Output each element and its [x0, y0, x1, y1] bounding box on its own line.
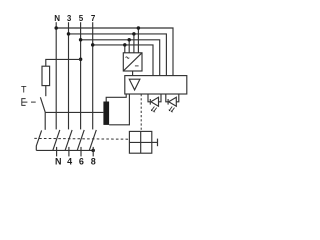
wire lower stub N: [56, 147, 58, 157]
wire lower stub 8: [92, 147, 94, 157]
svg-text:T: T: [21, 84, 27, 94]
node junction 5 branch: [79, 38, 83, 42]
LED H1: [148, 94, 161, 112]
resistor R1 (test resistor): [42, 66, 50, 85]
op-amp triangle symbol in U1: [129, 79, 140, 90]
svg-text:7: 7: [91, 14, 96, 23]
wire resistor to test contact: [45, 86, 47, 97]
wire bottom test bus: [36, 149, 93, 151]
wire test circuit to coil: [45, 111, 103, 113]
auxiliary test contact: [36, 130, 41, 150]
wire N conductor: [55, 22, 57, 129]
wire rectifier tap from N line: [137, 28, 139, 53]
wire branch from 7 to electronics: [93, 45, 153, 76]
svg-text:5: 5: [79, 14, 84, 23]
node tap dot N: [137, 26, 141, 30]
svg-text:3: 3: [67, 14, 72, 23]
svg-text:8: 8: [91, 156, 96, 166]
LED H2: [166, 94, 179, 112]
node junction N branch: [54, 26, 58, 30]
wire L1 conductor (3): [68, 22, 70, 129]
push rod to mechanism: [152, 141, 157, 143]
svg-text:4: 4: [67, 156, 72, 166]
svg-text:N: N: [54, 14, 60, 23]
svg-text:6: 6: [79, 156, 84, 166]
wire rectifier tap from 7 line: [124, 45, 126, 53]
wire lower stub 6: [80, 147, 82, 157]
wire coil feed left: [106, 94, 126, 102]
node tap dot 5: [127, 38, 131, 42]
wire L3 conductor (7): [92, 22, 94, 129]
main contact pole 7: [89, 130, 96, 151]
mechanical linkage dashed line: [34, 137, 129, 140]
mechanical link dash of button: [31, 101, 36, 103]
wire rectifier tap from 3 line: [133, 34, 135, 53]
node tap dot 3: [132, 32, 136, 36]
electronics unit U1 box: [125, 76, 187, 94]
trip coil K1 (solid bar): [103, 102, 109, 125]
test button mechanism box: [129, 131, 151, 153]
push-button actuator symbol: [22, 99, 28, 106]
node resistor branch on conductor 5: [79, 58, 83, 62]
wire L2 conductor (5): [80, 22, 82, 129]
node junction 7 branch: [91, 43, 95, 47]
test button contact (diagonal): [40, 97, 45, 112]
wire branch from 3 to electronics: [69, 34, 167, 76]
main contact pole N: [53, 130, 60, 151]
svg-text:N: N: [55, 156, 62, 166]
push rod end bar: [157, 139, 159, 147]
main contact pole 3: [65, 130, 72, 151]
wire rectifier output: [132, 71, 134, 76]
wire branch from 5 to electronics: [81, 40, 160, 76]
rectifier B1 box: [123, 53, 142, 71]
wire test contact down: [44, 112, 46, 129]
dashed link electronics to mechanism: [140, 94, 142, 131]
wire branch from N to electronics: [56, 28, 173, 76]
node junction 3 branch: [67, 32, 71, 36]
wire rectifier tap from 5 line: [128, 40, 130, 53]
main contact pole 5: [77, 130, 84, 151]
wire lower stub 4: [68, 147, 70, 157]
wire coil feed right: [109, 94, 129, 125]
node test bus to pole 8: [91, 149, 95, 153]
node tap dot 7: [123, 43, 127, 47]
wire resistor branch: [46, 59, 81, 66]
